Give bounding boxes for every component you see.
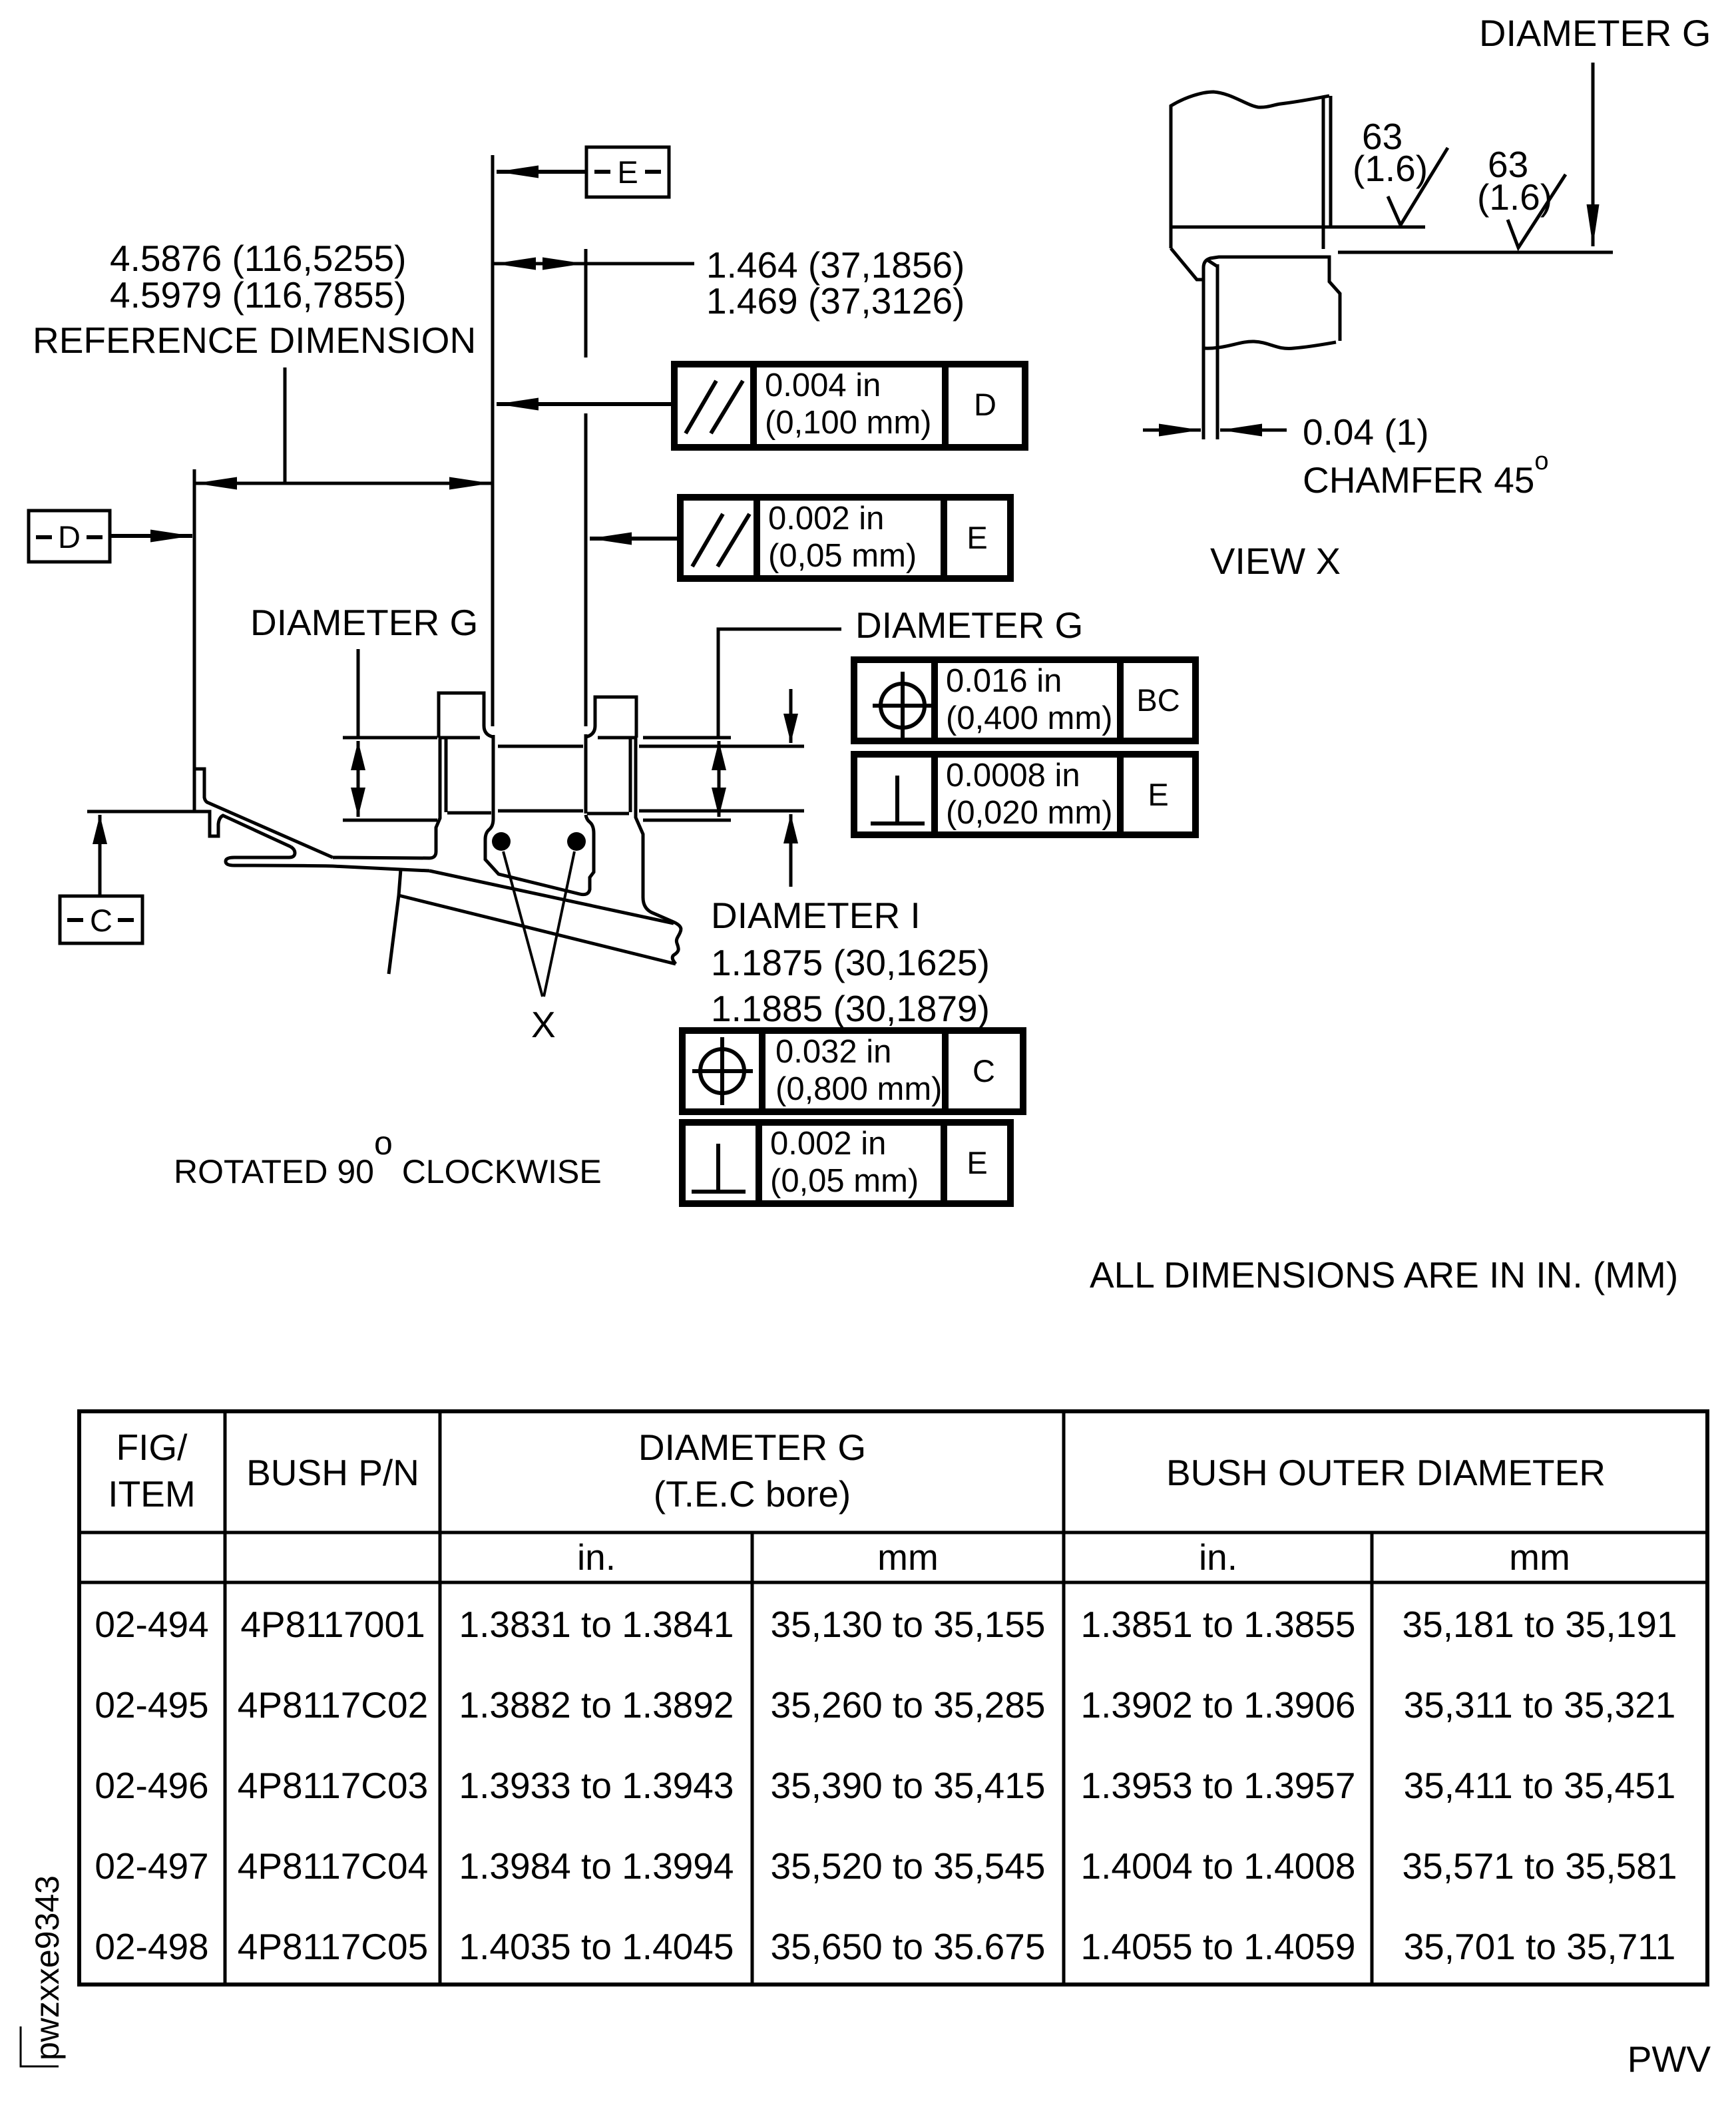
- svg-text:1.3933 to 1.3943: 1.3933 to 1.3943: [459, 1765, 734, 1806]
- view X bore wall outer edge: [1329, 96, 1333, 227]
- extension line 1 (datum E surface): [491, 155, 495, 726]
- svg-text:(0,400 mm): (0,400 mm): [946, 700, 1113, 736]
- svg-text:in.: in.: [1199, 1536, 1237, 1578]
- svg-text:mm: mm: [877, 1536, 939, 1578]
- perpendicularity symbol vertical: [895, 776, 899, 823]
- svg-text:D: D: [58, 519, 81, 555]
- svg-text:(1.6): (1.6): [1353, 148, 1428, 189]
- svg-text:E: E: [1148, 777, 1168, 812]
- svg-text:ITEM: ITEM: [108, 1473, 195, 1515]
- view X bore surface line: [1172, 226, 1425, 229]
- right tower left edge: [584, 734, 588, 814]
- svg-text:D: D: [974, 387, 996, 422]
- position symbol 2 horizontal: [692, 1069, 753, 1073]
- svg-text:35,311 to 35,321: 35,311 to 35,321: [1404, 1684, 1676, 1726]
- svg-text:(0,05 mm): (0,05 mm): [768, 538, 917, 574]
- bore line I bottom middle segment: [498, 810, 583, 813]
- svg-text:1.3984 to 1.3994: 1.3984 to 1.3994: [459, 1845, 734, 1887]
- inspection point dot 2: [567, 832, 586, 851]
- dimension line 1.464: [493, 262, 694, 266]
- frame divider: [759, 1031, 765, 1112]
- leader arrow from datum D box: [110, 534, 192, 538]
- svg-text:E: E: [617, 154, 638, 190]
- svg-text:pwzxxe9343: pwzxxe9343: [29, 1875, 66, 2060]
- svg-text:(0,05 mm): (0,05 mm): [770, 1163, 919, 1199]
- svg-text:E: E: [967, 1145, 987, 1180]
- svg-text:(0,020 mm): (0,020 mm): [946, 795, 1113, 831]
- svg-text:ROTATED 90o CLOCKWISE: ROTATED 90o CLOCKWISE: [174, 1124, 602, 1190]
- parallelism symbol stroke 1: [686, 381, 716, 433]
- table column line 2: [439, 1411, 442, 1985]
- reference dim leader tick: [284, 367, 287, 483]
- svg-text:0.002 in: 0.002 in: [770, 1126, 886, 1162]
- reference dim arrow right: [285, 482, 491, 485]
- datum E dash left: [594, 170, 610, 174]
- svg-text:4P8117C03: 4P8117C03: [238, 1765, 428, 1806]
- table header row line 1: [79, 1531, 1707, 1534]
- surface finish check 1: [1388, 148, 1448, 225]
- extension line 2 lower segment: [584, 413, 588, 726]
- datum box C: [60, 896, 142, 943]
- svg-text:1.3882 to 1.3892: 1.3882 to 1.3892: [459, 1684, 734, 1726]
- svg-text:1.469 (37,3126): 1.469 (37,3126): [706, 280, 965, 322]
- svg-text:(1.6): (1.6): [1477, 176, 1552, 218]
- parallelism symbol stroke 2: [718, 514, 750, 567]
- svg-text:BUSH OUTER DIAMETER: BUSH OUTER DIAMETER: [1166, 1452, 1606, 1493]
- svg-text:4.5876 (116,5255): 4.5876 (116,5255): [110, 238, 406, 279]
- X leader from dot 1: [503, 851, 542, 997]
- frame divider: [942, 1031, 949, 1112]
- frame divider: [941, 497, 947, 579]
- feature control frame perpendicularity 0.002 E: [682, 1122, 1010, 1204]
- frame divider: [756, 1122, 762, 1204]
- bore line G bottom right segment: [643, 819, 731, 822]
- datum C dash left: [67, 918, 83, 922]
- svg-text:4P8117C05: 4P8117C05: [238, 1926, 428, 1967]
- leader arrow from datum E box: [497, 170, 586, 174]
- left bush head outline: [439, 693, 493, 738]
- view X bush break line: [1203, 342, 1336, 349]
- position symbol 2: [700, 1049, 744, 1093]
- svg-text:1.4035 to 1.4045: 1.4035 to 1.4045: [459, 1926, 734, 1967]
- bore line G bottom left segment: [343, 819, 437, 822]
- svg-text:0.0008 in: 0.0008 in: [946, 758, 1080, 794]
- svg-text:02-496: 02-496: [95, 1765, 208, 1806]
- footer corner bracket: [21, 2026, 59, 2066]
- left bush body bottom: [447, 812, 491, 815]
- svg-text:DIAMETER G: DIAMETER G: [855, 604, 1083, 646]
- svg-text:0.004 in: 0.004 in: [765, 367, 881, 403]
- datum box E: [586, 147, 669, 197]
- surface finish check 2: [1508, 174, 1566, 248]
- svg-text:4.5979 (116,7855): 4.5979 (116,7855): [110, 274, 406, 316]
- svg-text:1.3831 to 1.3841: 1.3831 to 1.3841: [459, 1604, 734, 1645]
- hook profile: [226, 847, 429, 871]
- break line squiggle right end: [672, 929, 681, 964]
- svg-text:C: C: [90, 903, 112, 938]
- svg-text:DIAMETER I: DIAMETER I: [711, 895, 921, 936]
- perpendicularity symbol 2 vertical: [716, 1144, 720, 1192]
- frame divider: [1117, 754, 1124, 835]
- diameter I arrow down: [789, 689, 793, 743]
- svg-text:35,701 to 35,711: 35,701 to 35,711: [1404, 1926, 1676, 1967]
- position symbol horizontal: [873, 704, 933, 708]
- svg-text:1.1875 (30,1625): 1.1875 (30,1625): [711, 942, 990, 983]
- left bush head seat line: [439, 736, 480, 740]
- part top step and upper slope: [194, 769, 333, 857]
- datum C dash right: [118, 918, 134, 922]
- reference dim arrow left: [195, 482, 285, 485]
- parallelism symbol stroke 2: [711, 381, 743, 433]
- svg-text:0.016 in: 0.016 in: [946, 663, 1062, 699]
- frame divider: [941, 1122, 947, 1204]
- datum E dash right: [645, 170, 661, 174]
- feature control frame parallelism 0.002 E: [680, 497, 1010, 579]
- svg-text:1.3851 to 1.3855: 1.3851 to 1.3855: [1081, 1604, 1356, 1645]
- vane cut edge: [389, 869, 401, 974]
- diameter G arrow view X: [1592, 63, 1595, 246]
- svg-text:35,411 to 35,451: 35,411 to 35,451: [1404, 1765, 1676, 1806]
- dim arrowhead right: [526, 262, 584, 266]
- chamfer dim arrow left: [1143, 429, 1201, 432]
- svg-text:35,130 to 35,155: 35,130 to 35,155: [771, 1604, 1046, 1645]
- diameter G leader left: [357, 649, 360, 736]
- svg-text:02-498: 02-498: [95, 1926, 208, 1967]
- chamfer dim arrow right: [1220, 429, 1287, 432]
- right bush head outline: [586, 697, 636, 738]
- perpendicularity symbol horizontal: [871, 821, 925, 825]
- leader arrow from frame D: [497, 402, 674, 406]
- right tower right edge to flange: [636, 738, 681, 929]
- svg-text:DIAMETER G: DIAMETER G: [1479, 12, 1711, 54]
- svg-text:E: E: [967, 520, 987, 555]
- frame divider: [1117, 660, 1124, 741]
- diameter G leader right: [718, 629, 841, 736]
- right bush body right edge: [629, 739, 632, 812]
- svg-text:0.032 in: 0.032 in: [775, 1034, 891, 1070]
- svg-text:ALL DIMENSIONS ARE IN IN. (MM): ALL DIMENSIONS ARE IN IN. (MM): [1090, 1254, 1678, 1295]
- svg-text:1.3902 to 1.3906: 1.3902 to 1.3906: [1081, 1684, 1356, 1726]
- svg-text:35,571 to 35,581: 35,571 to 35,581: [1403, 1845, 1677, 1887]
- table column line 5: [1371, 1532, 1374, 1985]
- svg-text:DIAMETER G: DIAMETER G: [638, 1427, 866, 1468]
- view X bush chamfer edge: [1207, 260, 1218, 267]
- right bush head seat line: [598, 736, 636, 740]
- table column line 3: [751, 1532, 754, 1985]
- svg-text:X: X: [531, 1004, 556, 1045]
- svg-text:mm: mm: [1509, 1536, 1570, 1578]
- diameter I arrow up: [789, 814, 793, 887]
- dim arrowhead left: [494, 262, 552, 266]
- frame divider: [754, 497, 760, 579]
- svg-text:1.3953 to 1.3957: 1.3953 to 1.3957: [1081, 1765, 1356, 1806]
- table outer border: [79, 1411, 1707, 1985]
- datum D dash left: [36, 535, 52, 539]
- svg-text:(0,100 mm): (0,100 mm): [765, 405, 932, 441]
- diameter G arrow down right: [718, 779, 721, 817]
- svg-text:VIEW X: VIEW X: [1210, 540, 1341, 582]
- svg-text:(0,800 mm): (0,800 mm): [775, 1071, 943, 1107]
- svg-text:02-497: 02-497: [95, 1845, 208, 1887]
- position symbol: [881, 684, 925, 728]
- svg-text:REFERENCE DIMENSION: REFERENCE DIMENSION: [33, 320, 476, 361]
- svg-text:0.002 in: 0.002 in: [768, 501, 884, 537]
- svg-text:BUSH P/N: BUSH P/N: [246, 1452, 419, 1493]
- feature control frame position 0.016 BC: [854, 660, 1195, 741]
- feature control frame perpendicularity 0.0008 E: [854, 754, 1195, 835]
- diameter G arrow up: [357, 741, 360, 779]
- svg-text:02-495: 02-495: [95, 1684, 208, 1726]
- bore line I top middle segment: [498, 745, 583, 748]
- svg-text:35,520 to 35,545: 35,520 to 35,545: [771, 1845, 1046, 1887]
- frame divider: [942, 364, 949, 447]
- view X bore wall inner edge: [1322, 97, 1325, 249]
- diameter G arrow up right: [718, 741, 721, 779]
- svg-text:PWV: PWV: [1627, 2038, 1711, 2080]
- view X upper wall chamfer corner: [1171, 248, 1202, 280]
- bore line G top right segment: [643, 736, 731, 740]
- extension line 2 upper segment: [584, 249, 588, 357]
- datum D dash right: [87, 535, 103, 539]
- svg-text:02-494: 02-494: [95, 1604, 208, 1645]
- frame divider: [750, 364, 757, 447]
- right bush body bottom: [587, 812, 629, 816]
- svg-text:1.4055 to 1.4059: 1.4055 to 1.4059: [1081, 1926, 1356, 1967]
- perpendicularity symbol 2 horizontal: [692, 1190, 746, 1194]
- svg-text:4P8117C02: 4P8117C02: [238, 1684, 428, 1726]
- bore line G top left segment: [343, 736, 437, 740]
- table header row line 2: [79, 1581, 1707, 1584]
- svg-text:1.4004 to 1.4008: 1.4004 to 1.4008: [1081, 1845, 1356, 1887]
- view X upper wall outline: [1171, 92, 1329, 248]
- table column line 1: [224, 1411, 227, 1985]
- svg-text:C: C: [973, 1053, 995, 1088]
- svg-text:FIG/: FIG/: [116, 1427, 188, 1468]
- feature control frame parallelism 0.004 D: [674, 364, 1025, 447]
- view X outer surface line: [1338, 251, 1613, 254]
- position symbol vertical: [901, 672, 905, 740]
- svg-text:4P8117001: 4P8117001: [240, 1604, 425, 1645]
- flange bottom slope line: [399, 895, 676, 964]
- frame divider: [931, 754, 938, 835]
- bore line I bottom right segment: [639, 810, 804, 813]
- part bottom Z-step and lower slope: [194, 812, 291, 847]
- parallelism symbol stroke 1: [692, 514, 723, 567]
- feature control frame position 0.032 C: [682, 1031, 1023, 1112]
- bore line I top right segment: [639, 745, 804, 748]
- leader arrow from frame E: [590, 537, 680, 541]
- flange top slope line: [429, 871, 674, 923]
- left boss left edge to flange top: [333, 738, 440, 858]
- svg-text:35,650 to 35.675: 35,650 to 35.675: [771, 1926, 1046, 1967]
- svg-text:BC: BC: [1136, 682, 1180, 718]
- svg-text:DIAMETER G: DIAMETER G: [250, 602, 478, 643]
- view X bush outline top: [1203, 257, 1340, 341]
- svg-text:35,390 to 35,415: 35,390 to 35,415: [771, 1765, 1046, 1806]
- X leader from dot 2: [544, 851, 574, 997]
- svg-text:CHAMFER 45o: CHAMFER 45o: [1303, 447, 1549, 501]
- position symbol 2 vertical: [720, 1037, 724, 1105]
- svg-text:1.464 (37,1856): 1.464 (37,1856): [706, 244, 965, 286]
- svg-text:35,181 to 35,191: 35,181 to 35,191: [1403, 1604, 1677, 1645]
- datum box D: [29, 511, 110, 562]
- left bush body left edge: [445, 738, 448, 812]
- svg-text:35,260 to 35,285: 35,260 to 35,285: [771, 1684, 1046, 1726]
- view X bush left edge outer: [1202, 268, 1205, 439]
- extension line left (datum D surface): [193, 469, 196, 770]
- left tower right edge and valley profile: [485, 735, 594, 895]
- datum C surface extension line: [87, 810, 195, 814]
- part left end vertical edge: [193, 769, 196, 812]
- table column line 4: [1062, 1411, 1066, 1985]
- svg-text:1.1885 (30,1879): 1.1885 (30,1879): [711, 988, 990, 1029]
- view X bush left edge inner: [1216, 264, 1219, 439]
- inspection point dot 1: [492, 832, 511, 851]
- svg-text:0.04 (1): 0.04 (1): [1303, 411, 1429, 453]
- svg-text:4P8117C04: 4P8117C04: [238, 1845, 428, 1887]
- svg-text:in.: in.: [577, 1536, 616, 1578]
- frame divider: [931, 660, 938, 741]
- diameter G arrow down: [357, 779, 360, 817]
- svg-text:(T.E.C bore): (T.E.C bore): [654, 1473, 851, 1515]
- leader arrow from datum C box: [99, 815, 102, 896]
